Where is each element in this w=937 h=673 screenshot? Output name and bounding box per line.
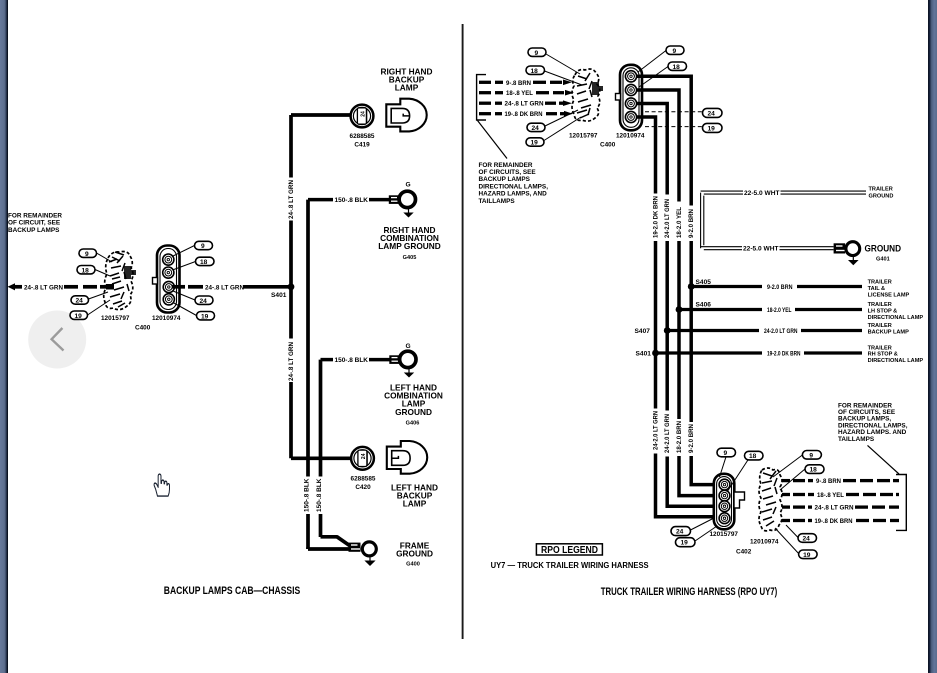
text TRAILER BACKUP LAMP xyxy=(868,323,909,335)
svg-text:HAZARD LAMPS, AND: HAZARD LAMPS, AND xyxy=(479,191,548,198)
svg-text:GROUND: GROUND xyxy=(865,244,902,255)
svg-text:FOR REMAINDER: FOR REMAINDER xyxy=(479,162,533,169)
title FRAME GROUND / G400 xyxy=(396,540,433,558)
svg-text:18-2.0 YEL: 18-2.0 YEL xyxy=(767,307,792,314)
svg-text:UY7 — TRUCK TRAILER WIRING HAR: UY7 — TRUCK TRAILER WIRING HARNESS xyxy=(491,561,649,570)
svg-text:G406: G406 xyxy=(406,421,420,427)
harness wire 24-.8 LT GRN (bottom dashed row 3) xyxy=(782,505,899,512)
connector 12010974 (left sheet, solid half of C400) xyxy=(152,246,181,323)
svg-text:24-.8 LT GRN: 24-.8 LT GRN xyxy=(205,284,244,291)
svg-text:G401: G401 xyxy=(876,256,890,262)
harness wire 18-.8 YEL (bottom dashed row 2) xyxy=(782,492,899,499)
wire label 150-.8 BLK (vertical pair above frame ground) xyxy=(303,478,310,512)
svg-text:9-.8 BRN: 9-.8 BRN xyxy=(816,478,841,485)
svg-text:9: 9 xyxy=(673,48,677,55)
note: FOR REMAINDER OF CIRCUITS (bottom right) xyxy=(838,402,908,443)
pin oval 18 (above C402) xyxy=(745,451,764,460)
pin oval 9 (above C402 left) xyxy=(717,448,736,457)
pin oval 19 xyxy=(70,311,88,320)
text TRAILER RH STOP & DIRECTIONAL LAMP xyxy=(868,345,924,364)
svg-text:9: 9 xyxy=(724,450,728,457)
svg-text:LAMP: LAMP xyxy=(395,83,419,93)
text TRAILER TAIL & LICENSE LAMP xyxy=(868,280,910,299)
svg-text:RPO LEGEND: RPO LEGEND xyxy=(541,544,598,556)
pin oval 18 (right of C400) xyxy=(196,257,215,266)
svg-text:BACKUP LAMP: BACKUP LAMP xyxy=(868,330,909,336)
svg-text:S401: S401 xyxy=(636,351,652,358)
wire 24-.8 LT GRN from off-page (arrow) to connector C400 xyxy=(8,283,107,291)
svg-text:TRAILER: TRAILER xyxy=(868,302,892,308)
connector 12015797 (bottom, solid half of C402) xyxy=(710,474,745,538)
note: FOR REMAINDER OF CIRCUIT, SEE BACKUP LAMPS xyxy=(8,213,62,234)
pin oval 24 (far right, dashed leader) xyxy=(703,108,723,117)
pin oval 9 (right of C400) xyxy=(195,241,213,250)
svg-text:9: 9 xyxy=(535,50,539,57)
svg-text:18-2.0 BRN: 18-2.0 BRN xyxy=(676,421,683,453)
svg-text:12010974: 12010974 xyxy=(152,315,181,322)
svg-text:24: 24 xyxy=(708,110,716,117)
pin oval 19 (far right, dashed leader) xyxy=(703,123,723,132)
pin oval 18 (right) xyxy=(805,465,824,474)
legend text UY7 xyxy=(491,561,649,570)
pin oval 18 xyxy=(668,62,687,71)
svg-text:150-.8 BLK: 150-.8 BLK xyxy=(335,357,369,364)
leader lines from ovals 9/18 to connector pins xyxy=(638,51,668,88)
svg-text:150-.8 BLK: 150-.8 BLK xyxy=(335,197,369,204)
right blue edge strip xyxy=(928,0,937,673)
left hand backup lamp (bulb symbol) xyxy=(387,441,427,474)
vertical wire label 9-2.0 BRN (lower) xyxy=(688,424,695,453)
svg-text:9: 9 xyxy=(809,452,813,459)
svg-text:19: 19 xyxy=(803,552,811,559)
svg-text:G400: G400 xyxy=(406,562,420,568)
svg-text:9: 9 xyxy=(201,243,205,250)
wire 18-2.0 YEL from pin 18 xyxy=(636,90,679,310)
svg-text:12010974: 12010974 xyxy=(616,133,645,140)
pin oval 24 (left of C402) xyxy=(671,527,691,536)
svg-text:RH STOP &: RH STOP & xyxy=(868,352,898,358)
connector 12015797 (right sheet top, dashed half of C400) xyxy=(569,69,603,140)
svg-text:24: 24 xyxy=(676,529,684,536)
svg-text:C420: C420 xyxy=(355,484,371,491)
svg-text:22-5.0 WHT: 22-5.0 WHT xyxy=(743,246,779,253)
leader line from bracket to note text xyxy=(478,121,508,159)
svg-text:S401: S401 xyxy=(271,292,287,299)
svg-text:19-2.0 DK BRN: 19-2.0 DK BRN xyxy=(767,351,801,358)
svg-text:LAMP: LAMP xyxy=(403,499,427,509)
splice S405 and wire 9-2.0 BRN to trailer tail lamp xyxy=(688,279,862,291)
svg-text:18-.8 YEL: 18-.8 YEL xyxy=(506,90,533,97)
bracket for off-page circuits (right sheet, bottom right) xyxy=(896,475,906,531)
svg-text:19: 19 xyxy=(708,125,716,132)
wire label 24-.8 LT GRN (vertical, lower) xyxy=(288,342,295,381)
dashed leader lines to ovals 24/19 xyxy=(645,112,702,127)
splice S407 and wire 24-2.0 LT GRN to trailer backup lamp xyxy=(635,327,863,335)
svg-text:DIRECTIONAL LAMPS,: DIRECTIONAL LAMPS, xyxy=(479,183,549,190)
svg-text:19-.8 DK BRN: 19-.8 DK BRN xyxy=(505,111,543,118)
svg-text:TRAILER: TRAILER xyxy=(868,323,892,329)
svg-text:19-2.0 DK BRN: 19-2.0 DK BRN xyxy=(652,196,659,238)
svg-text:24-2.0 LT GRN: 24-2.0 LT GRN xyxy=(664,414,671,453)
svg-text:18-2.0 YEL: 18-2.0 YEL xyxy=(676,207,683,238)
ring terminal ground G405 xyxy=(389,181,416,217)
pin oval 18 xyxy=(77,266,95,275)
svg-text:18: 18 xyxy=(749,453,757,460)
svg-text:18: 18 xyxy=(673,64,681,71)
svg-text:BACKUP LAMPS: BACKUP LAMPS xyxy=(8,227,60,234)
connector 12015797 (left sheet, dashed half of C400) xyxy=(101,252,136,323)
svg-text:24-.8 LT GRN: 24-.8 LT GRN xyxy=(288,180,295,219)
svg-text:19: 19 xyxy=(201,313,209,320)
svg-text:LAMP GROUND: LAMP GROUND xyxy=(378,241,441,251)
svg-text:9-2.0 BRN: 9-2.0 BRN xyxy=(767,284,793,291)
svg-text:9-2.0 BRN: 9-2.0 BRN xyxy=(688,424,695,453)
svg-text:BACKUP LAMPS: BACKUP LAMPS xyxy=(479,176,531,183)
svg-text:18-.8 YEL: 18-.8 YEL xyxy=(817,492,844,499)
svg-text:G: G xyxy=(406,343,411,350)
svg-text:LH STOP &: LH STOP & xyxy=(868,309,898,315)
svg-text:24-.8 LT GRN: 24-.8 LT GRN xyxy=(505,101,544,108)
ring terminal ground G406 xyxy=(389,343,416,378)
svg-text:24: 24 xyxy=(360,111,366,117)
svg-text:OF CIRCUIT, SEE: OF CIRCUIT, SEE xyxy=(8,220,61,227)
bracket for off-page circuits (right sheet, upper left) xyxy=(477,75,486,120)
label 6288585 / C419 xyxy=(350,133,375,149)
svg-text:24-.8 LT GRN: 24-.8 LT GRN xyxy=(288,342,295,381)
RPO LEGEND box xyxy=(536,544,602,556)
svg-text:24: 24 xyxy=(532,125,540,132)
svg-text:TRAILER: TRAILER xyxy=(868,345,892,351)
svg-text:24: 24 xyxy=(76,298,84,305)
harness wire 19-.8 DK BRN (dashed row 4) xyxy=(479,111,573,118)
svg-text:24: 24 xyxy=(803,536,811,543)
wire label 22-5.0 WHT (bottom) xyxy=(743,246,779,253)
pin oval 9 (left of C400) xyxy=(79,249,97,258)
pin oval 9 (upper right of connector) xyxy=(666,46,684,55)
pin oval 19 (right of C402) xyxy=(799,550,818,559)
vertical wire label 18-2.0 BRN (lower) xyxy=(676,421,683,453)
svg-text:24-.8 LT GRN: 24-.8 LT GRN xyxy=(24,284,63,291)
connector label C402 xyxy=(736,549,752,556)
svg-text:TRUCK TRAILER WIRING HARNESS (: TRUCK TRAILER WIRING HARNESS (RPO UY7) xyxy=(601,586,778,598)
label GROUND / G401 xyxy=(865,244,902,263)
pin oval 24 (right of C402) xyxy=(798,534,817,543)
caption TRUCK TRAILER WIRING HARNESS (RPO UY7) xyxy=(601,586,778,598)
svg-text:TRAILER: TRAILER xyxy=(868,280,892,286)
splice node S401 (left sheet) xyxy=(271,283,294,299)
page divider rule between the two schematic sheets xyxy=(462,24,464,639)
svg-text:GROUND: GROUND xyxy=(395,407,432,417)
svg-text:9-.8 BRN: 9-.8 BRN xyxy=(506,80,531,87)
title LEFT HAND COMBINATION LAMP GROUND / G406 xyxy=(384,382,443,417)
harness wire 9-.8 BRN (bottom dashed row 1) xyxy=(782,478,899,485)
svg-text:DIRECTIONAL LAMP: DIRECTIONAL LAMP xyxy=(868,315,924,321)
svg-text:18: 18 xyxy=(810,467,818,474)
wires into frame ground G400 xyxy=(308,537,350,549)
wire 24-.8 LT GRN from C400 to splice S401 xyxy=(172,284,291,291)
svg-text:24: 24 xyxy=(200,298,208,305)
svg-text:LICENSE LAMP: LICENSE LAMP xyxy=(868,292,910,298)
leader lines from connector 12010974 pins to ovals xyxy=(172,246,197,316)
left blue edge strip xyxy=(0,0,8,673)
lamp socket connector C419 (circle with pin 24) xyxy=(351,105,374,128)
svg-text:C400: C400 xyxy=(135,325,151,332)
trailer ground loop wire 22-5.0 WHT (thin double line) xyxy=(701,191,866,250)
text TRAILER LH STOP & DIRECTIONAL LAMP xyxy=(868,302,924,321)
svg-text:22-5.0 WHT: 22-5.0 WHT xyxy=(744,190,780,197)
svg-text:18: 18 xyxy=(82,267,90,274)
title RIGHT HAND COMBINATION LAMP GROUND / G405 xyxy=(378,225,441,251)
leader lines from ovals to dashed connector 12015797 xyxy=(544,54,582,141)
splice S401 and wire 19-2.0 DK BRN to trailer RH stop lamp xyxy=(636,350,863,358)
ring terminal ground G401 xyxy=(834,242,860,266)
vertical wire label 19-2.0 DK BRN xyxy=(652,196,659,238)
svg-text:GROUND: GROUND xyxy=(869,193,894,199)
text TRAILER GROUND (top right) xyxy=(869,187,894,200)
wire trunk 24-.8 LT GRN vertical (S401 up to C419, down to C420) xyxy=(291,115,351,458)
svg-text:C402: C402 xyxy=(736,549,752,556)
leader line from note to bracket xyxy=(868,445,900,474)
wire 150-.8 BLK to LH combination lamp ground xyxy=(321,357,390,537)
wire label 24-.8 LT GRN (vertical, upper) xyxy=(288,180,295,219)
vertical wire label 24-2.0 LT GRN (lower) xyxy=(664,414,671,453)
connector 12010974 (bottom, dashed half of C402) xyxy=(750,468,782,545)
svg-text:S407: S407 xyxy=(635,328,651,335)
svg-text:24-2.0 LT GRN: 24-2.0 LT GRN xyxy=(652,411,659,450)
vertical wire label 24-2.0 LT GRN xyxy=(664,199,671,238)
svg-text:19: 19 xyxy=(681,540,689,547)
pin oval 9 (above dashed connector, right sheet) xyxy=(528,48,546,57)
wire 9-2.0 BRN from pin 9 (top) xyxy=(636,76,691,286)
connector 12010974 (right sheet top, solid half of C400) xyxy=(616,65,645,140)
svg-text:12015797: 12015797 xyxy=(710,531,739,538)
leader lines around C402 xyxy=(691,455,806,554)
svg-text:150-.8 BLK: 150-.8 BLK xyxy=(316,478,323,512)
svg-text:19: 19 xyxy=(75,313,83,320)
vertical wire label 18-2.0 YEL xyxy=(676,207,683,238)
vertical wire label 24-2.0 LT GRN (lower, left) xyxy=(652,411,659,450)
pin oval 19 (left of C402) xyxy=(676,538,696,547)
svg-text:12015797: 12015797 xyxy=(569,133,598,140)
svg-text:9: 9 xyxy=(85,251,89,258)
vertical wire label 9-2.0 BRN xyxy=(688,209,695,238)
title LEFT HAND BACKUP LAMP xyxy=(391,482,438,508)
back navigation chevron button xyxy=(28,311,86,369)
svg-text:24-.8 LT GRN: 24-.8 LT GRN xyxy=(815,505,854,512)
svg-text:6288585: 6288585 xyxy=(350,133,375,140)
wire label 22-5.0 WHT (top) xyxy=(744,190,780,197)
svg-text:12010974: 12010974 xyxy=(750,538,779,545)
connector label C400 (left sheet) xyxy=(135,325,151,332)
harness wire 24-.8 LT GRN (dashed row 3) xyxy=(479,100,572,107)
svg-text:18: 18 xyxy=(200,259,208,266)
svg-text:OF CIRCUITS, SEE: OF CIRCUITS, SEE xyxy=(479,169,537,176)
wire 19-2.0 DK BRN from pin 19 xyxy=(636,117,656,353)
ring terminal frame ground G400 xyxy=(349,542,377,566)
svg-text:24: 24 xyxy=(361,453,367,459)
label 6288585 / C420 xyxy=(351,476,376,492)
pin oval 19 xyxy=(526,138,544,147)
lower trunk wires down to connector C402 xyxy=(656,287,715,517)
svg-text:TAILLAMPS: TAILLAMPS xyxy=(838,436,875,443)
wire 24-2.0 LT GRN from pin 24 xyxy=(636,104,667,331)
note: FOR REMAINDER OF CIRCUITS (right sheet, left) xyxy=(479,162,549,205)
svg-text:150-.8 BLK: 150-.8 BLK xyxy=(303,478,310,512)
wire 150-.8 BLK to RH combination lamp ground xyxy=(308,197,389,549)
svg-text:19-.8 DK BRN: 19-.8 DK BRN xyxy=(815,518,853,525)
svg-text:6288585: 6288585 xyxy=(351,476,376,483)
svg-text:TRAILER: TRAILER xyxy=(869,187,893,193)
leader lines from ovals 9/18/24/19 to connector 12015797 xyxy=(88,253,113,315)
svg-text:9-2.0 BRN: 9-2.0 BRN xyxy=(688,209,695,238)
svg-text:DIRECTIONAL LAMP: DIRECTIONAL LAMP xyxy=(868,358,924,364)
connector label C400 (right sheet) xyxy=(600,142,616,149)
lamp socket connector C420 (circle with pin 24) xyxy=(351,447,374,470)
pin oval 18 xyxy=(526,66,545,75)
svg-text:C419: C419 xyxy=(354,142,370,149)
svg-text:TAIL &: TAIL & xyxy=(868,286,886,292)
harness wire 18-.8 YEL (dashed row 2) xyxy=(479,90,574,97)
svg-text:19: 19 xyxy=(531,140,539,147)
mouse pointer cursor xyxy=(154,474,169,496)
pin oval 24 (right of C400) xyxy=(195,296,213,305)
svg-text:24-2.0 LT GRN: 24-2.0 LT GRN xyxy=(764,328,798,335)
pin oval 19 (right of C400) xyxy=(197,312,215,321)
pin oval 24 (below, right sheet) xyxy=(527,123,545,132)
pin oval 9 (above C402 right) xyxy=(802,451,821,460)
pin oval 24 xyxy=(71,296,89,305)
svg-text:C400: C400 xyxy=(600,142,616,149)
splice S406 and wire 18-2.0 YEL to trailer LH stop lamp xyxy=(676,301,862,314)
right hand backup lamp (bulb symbol) xyxy=(386,99,426,132)
svg-text:G405: G405 xyxy=(403,255,417,261)
svg-text:S405: S405 xyxy=(696,279,712,286)
svg-text:FOR REMAINDER: FOR REMAINDER xyxy=(8,213,62,220)
svg-text:BACKUP LAMPS CAB—CHASSIS: BACKUP LAMPS CAB—CHASSIS xyxy=(164,585,301,597)
title RIGHT HAND BACKUP LAMP xyxy=(380,66,432,92)
svg-text:18: 18 xyxy=(531,68,539,75)
svg-text:G: G xyxy=(406,181,411,188)
caption BACKUP LAMPS CAB—CHASSIS xyxy=(164,585,301,597)
svg-text:S406: S406 xyxy=(696,301,712,308)
harness wire 9-.8 BRN (dashed row 1) xyxy=(479,80,572,87)
svg-text:GROUND: GROUND xyxy=(396,549,433,559)
svg-text:12015797: 12015797 xyxy=(101,315,130,322)
harness wire 19-.8 DK BRN (bottom dashed row 4) xyxy=(782,518,899,525)
svg-text:TAILLAMPS: TAILLAMPS xyxy=(479,198,516,205)
svg-text:24-2.0 LT GRN: 24-2.0 LT GRN xyxy=(664,199,671,238)
